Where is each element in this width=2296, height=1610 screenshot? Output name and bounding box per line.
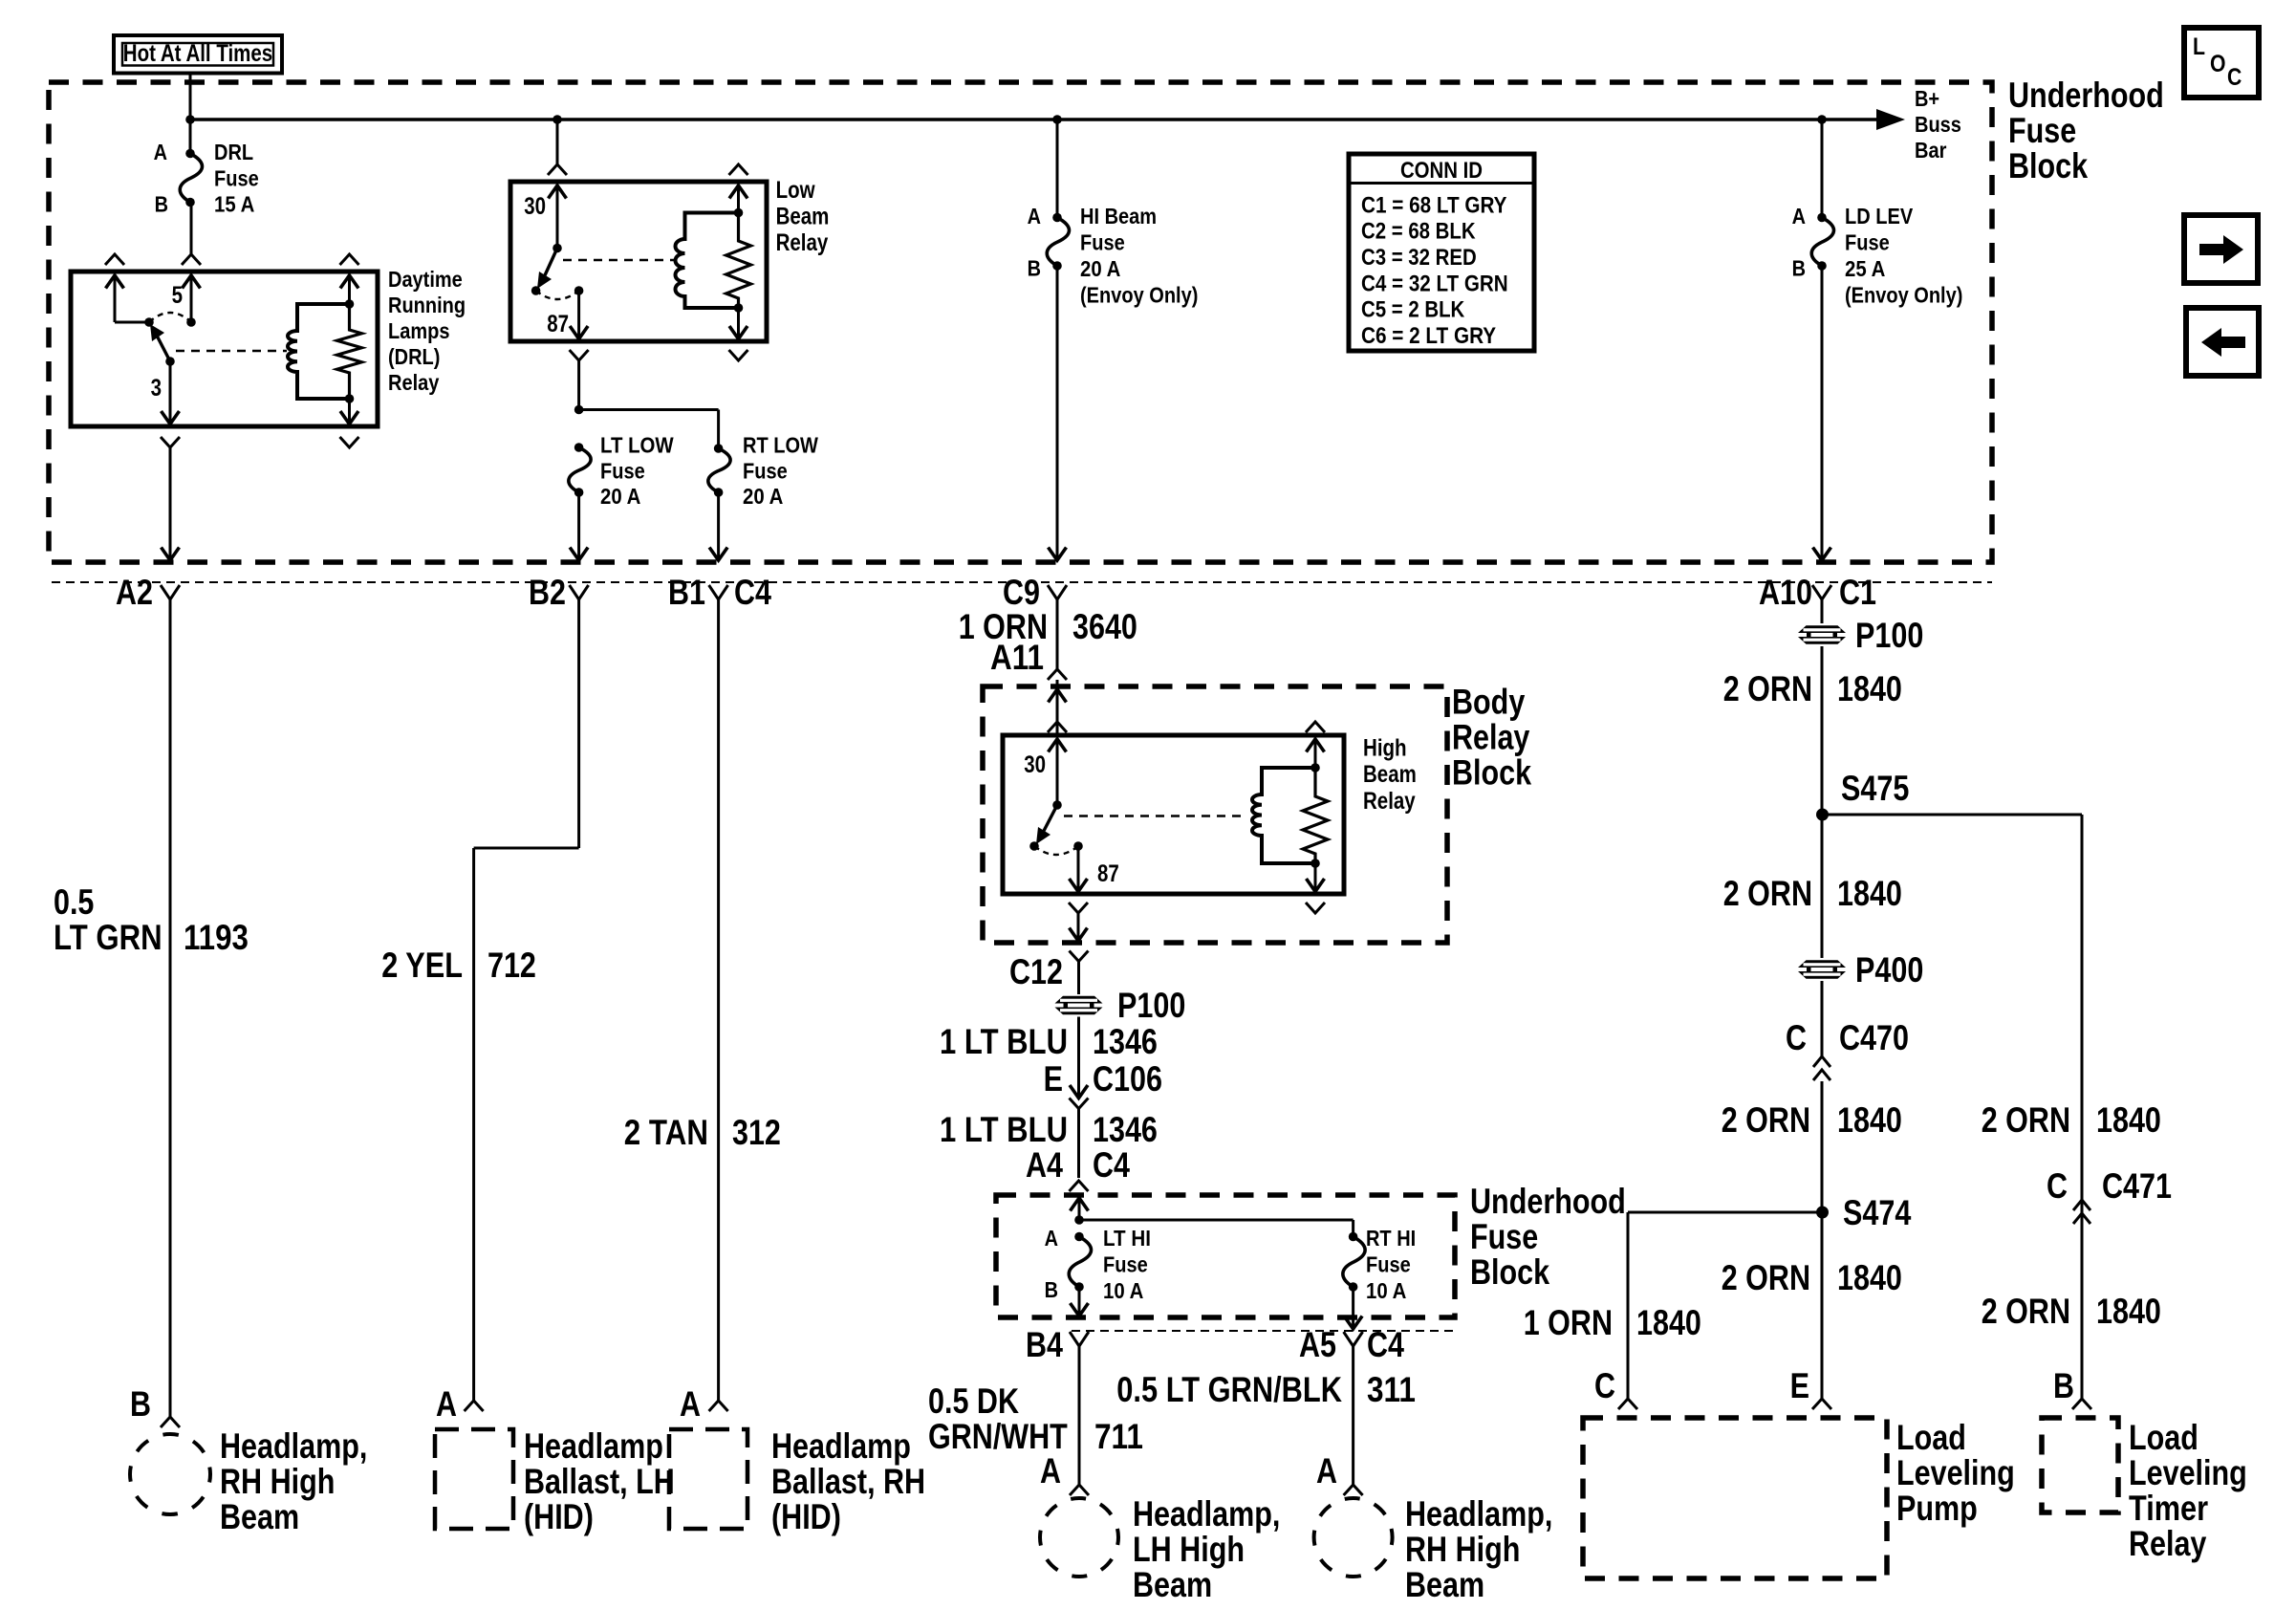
svg-text:1346: 1346 — [1093, 1022, 1158, 1061]
box: Headlamp Ballast LH (HID) (dashed) — [435, 1429, 513, 1529]
fuse DRL Fuse 15 A — [180, 154, 202, 203]
connector P100 (right) — [1798, 625, 1846, 644]
svg-text:B: B — [1028, 256, 1041, 281]
svg-text:Buss: Buss — [1915, 112, 1961, 137]
svg-text:B: B — [130, 1384, 151, 1424]
svg-text:Beam: Beam — [220, 1497, 299, 1536]
wire buss bar to HI Beam fuse — [1056, 120, 1059, 218]
fuse LD LEV Fuse 25 A — [1811, 218, 1833, 267]
High Beam Relay switch blade (arrow down-left) — [1044, 805, 1057, 831]
svg-text:Relay: Relay — [776, 229, 829, 256]
box: Headlamp Ballast RH (HID) (dashed) — [669, 1429, 747, 1529]
connector Y at A10/C1 — [1812, 585, 1831, 599]
lamp: Headlamp RH High Beam mid (dashed circle) — [1314, 1498, 1393, 1577]
wire S475 to P400 — [1821, 815, 1824, 958]
svg-text:Headlamp,: Headlamp, — [1133, 1494, 1280, 1534]
svg-text:20 A: 20 A — [600, 484, 640, 509]
svg-text:A: A — [1045, 1226, 1058, 1251]
box: Load Leveling Pump (dashed) — [1583, 1418, 1887, 1578]
connector C106 chevron — [1070, 1099, 1089, 1109]
svg-text:RT HI: RT HI — [1366, 1226, 1416, 1251]
connector chevron into RH High Beam lamp — [161, 1417, 180, 1427]
svg-text:Fuse: Fuse — [600, 458, 645, 483]
svg-text:C6 = 2 LT GRY: C6 = 2 LT GRY — [1361, 323, 1496, 349]
svg-text:Block: Block — [2008, 146, 2088, 185]
connector chevron into underhood fuse block 2 — [1070, 1181, 1089, 1191]
connector Y at A2 — [161, 585, 180, 599]
chevron below DRL relay pin 3 — [161, 437, 180, 447]
svg-text:Relay: Relay — [388, 370, 440, 395]
svg-text:1840: 1840 — [1837, 669, 1902, 708]
chevron above High Beam Relay pin 30 — [1048, 722, 1067, 732]
svg-text:A10: A10 — [1759, 573, 1812, 612]
svg-text:A5: A5 — [1299, 1325, 1336, 1364]
svg-text:Fuse: Fuse — [1470, 1217, 1538, 1256]
svg-text:Load: Load — [2129, 1418, 2199, 1457]
DRL relay actuation dashed link — [176, 350, 287, 352]
node: buss bar junction at DRL feed — [185, 115, 195, 124]
svg-text:3640: 3640 — [1072, 607, 1137, 646]
wire C106 to A4 — [1077, 1109, 1080, 1179]
DRL relay blade pivot dot (pin 3) — [165, 357, 175, 366]
High Beam Relay switch pivot dot — [1052, 800, 1062, 810]
DRL relay left pin (arrow up, wire to switch) — [106, 275, 124, 289]
svg-text:87: 87 — [1097, 860, 1119, 887]
chevron above High Beam Relay coil — [1306, 722, 1325, 732]
chevron below DRL relay coil — [340, 437, 359, 447]
wire from Hot At All Times into fuse block — [189, 73, 192, 120]
svg-text:0.5 LT GRN/BLK: 0.5 LT GRN/BLK — [1116, 1370, 1342, 1409]
svg-text:(HID): (HID) — [771, 1497, 841, 1536]
entry arrow into lower fuse block — [1071, 1198, 1089, 1211]
svg-text:RH High: RH High — [1405, 1530, 1520, 1569]
svg-text:S474: S474 — [1843, 1193, 1912, 1232]
svg-text:Daytime: Daytime — [388, 267, 463, 292]
svg-text:0.5: 0.5 — [54, 882, 94, 922]
svg-text:B+: B+ — [1915, 86, 1939, 111]
svg-text:P100: P100 — [1855, 616, 1923, 655]
svg-text:C4: C4 — [734, 573, 771, 612]
wire A2 down to RH High Beam lamp — [169, 599, 172, 1417]
svg-text:20 A: 20 A — [1080, 256, 1120, 281]
svg-text:C: C — [1594, 1366, 1615, 1405]
svg-text:2 ORN: 2 ORN — [1723, 874, 1812, 913]
node junction LT/RT HI fuses — [1074, 1215, 1084, 1225]
connector chevron into pump C — [1618, 1399, 1637, 1409]
svg-text:20 A: 20 A — [743, 484, 783, 509]
svg-text:LH High: LH High — [1133, 1530, 1245, 1569]
svg-text:Leveling: Leveling — [2129, 1453, 2247, 1492]
svg-text:Leveling: Leveling — [1896, 1453, 2015, 1492]
wire buss bar to DRL fuse — [189, 120, 192, 153]
svg-text:A4: A4 — [1026, 1145, 1063, 1185]
chevron below High Beam Relay pin 87 — [1069, 903, 1088, 913]
svg-text:Block: Block — [1470, 1252, 1549, 1292]
wire LT HI fuse to B4 — [1078, 1287, 1081, 1314]
frame: Underhood Fuse Block outer dashed box — [49, 82, 1992, 562]
svg-text:2 ORN: 2 ORN — [1982, 1292, 2070, 1331]
svg-text:C1: C1 — [1839, 573, 1876, 612]
svg-text:Headlamp: Headlamp — [771, 1426, 911, 1466]
svg-text:Beam: Beam — [1405, 1565, 1484, 1604]
lamp: Headlamp RH High Beam (dashed circle) — [130, 1434, 210, 1514]
fuse HI Beam Fuse 20 A — [1047, 218, 1069, 267]
connector Y at B1/C4 — [709, 585, 728, 599]
DRL relay pin 5 (arrow up, wire to contact) — [183, 275, 201, 289]
wire B4 to LH high beam lamp — [1078, 1346, 1081, 1485]
svg-text:0.5 DK: 0.5 DK — [928, 1382, 1019, 1421]
DRL relay switch common dot — [144, 317, 154, 327]
Low Beam Relay switch pivot dot — [552, 244, 562, 253]
svg-text:1 LT BLU: 1 LT BLU — [940, 1110, 1068, 1149]
connector Y at C9 — [1048, 585, 1067, 599]
svg-text:2 TAN: 2 TAN — [624, 1113, 708, 1152]
icon arrow left box — [2186, 308, 2259, 376]
wire A5 to RH high beam lamp — [1352, 1346, 1354, 1485]
connector chevron into RH ballast — [709, 1401, 728, 1411]
chevron below Low Beam Relay pin 87 — [570, 350, 589, 360]
svg-text:C4: C4 — [1093, 1145, 1130, 1185]
Low Beam Relay switch dashed arc — [536, 291, 579, 299]
wire DRL fuse B to DRL relay — [190, 203, 193, 255]
connector chevron into DRL relay coil pin — [340, 254, 359, 265]
Low Beam Relay contact 87 dot — [574, 286, 584, 295]
fuse LT HI Fuse 10 A — [1069, 1237, 1091, 1288]
svg-text:C12: C12 — [1009, 952, 1063, 991]
arrowhead buss bar — [1876, 109, 1905, 130]
svg-text:A: A — [154, 140, 167, 164]
wire S474 to pump E — [1821, 1212, 1824, 1399]
wire A10 to P100 — [1821, 599, 1824, 623]
svg-text:B4: B4 — [1026, 1325, 1063, 1364]
svg-text:A: A — [680, 1384, 701, 1424]
relay box: Daytime Running Lamps (DRL) Relay — [71, 272, 378, 426]
svg-text:Fuse: Fuse — [743, 458, 788, 483]
wire S474 branch left to pump C — [1628, 1211, 1823, 1214]
connector chevron into timer relay B — [2072, 1399, 2091, 1409]
wire LD LEV fuse to A10 exit — [1821, 266, 1824, 557]
Low Beam Relay contact dot (NO) — [531, 286, 541, 295]
svg-text:1840: 1840 — [1837, 1100, 1902, 1140]
svg-text:Relay: Relay — [1452, 718, 1530, 757]
svg-text:A: A — [1040, 1451, 1061, 1490]
svg-text:Headlamp,: Headlamp, — [1405, 1494, 1552, 1534]
connector chevron into LH high beam lamp — [1070, 1485, 1089, 1495]
Low Beam Relay pin 30 (arrow up + wire) — [549, 185, 567, 199]
svg-text:C: C — [1786, 1018, 1807, 1057]
svg-text:1 ORN: 1 ORN — [1524, 1303, 1613, 1342]
svg-text:30: 30 — [524, 193, 546, 220]
wire LT LOW fuse to B2 exit — [577, 492, 580, 557]
box: Underhood Fuse Block lower (dashed) — [996, 1195, 1455, 1317]
chevron below Low Beam Relay coil — [729, 350, 748, 360]
connector chevron into RH high beam lamp — [1344, 1485, 1363, 1495]
svg-text:Running: Running — [388, 293, 466, 317]
svg-text:Fuse: Fuse — [214, 165, 259, 190]
svg-text:C9: C9 — [1003, 573, 1040, 612]
icon LOC box — [2184, 28, 2259, 98]
lamp: Headlamp LH High Beam (dashed circle) — [1040, 1498, 1118, 1577]
svg-text:LT GRN: LT GRN — [54, 918, 162, 957]
svg-text:O: O — [2210, 51, 2226, 77]
svg-text:2 ORN: 2 ORN — [1722, 1258, 1810, 1297]
svg-text:RT LOW: RT LOW — [743, 433, 818, 458]
svg-text:Relay: Relay — [2129, 1524, 2207, 1563]
svg-text:1840: 1840 — [2096, 1100, 2161, 1140]
svg-text:Pump: Pump — [1896, 1489, 1978, 1528]
svg-text:B: B — [1045, 1277, 1058, 1302]
Low Beam Relay coil + resistor — [729, 185, 747, 199]
wire HI Beam fuse to C9 exit — [1056, 266, 1059, 557]
svg-text:Beam: Beam — [776, 204, 830, 230]
svg-text:C3 = 32 RED: C3 = 32 RED — [1361, 245, 1477, 271]
svg-text:GRN/WHT: GRN/WHT — [928, 1417, 1068, 1456]
svg-text:311: 311 — [1367, 1370, 1416, 1409]
svg-text:Fuse: Fuse — [1103, 1252, 1148, 1277]
svg-text:P400: P400 — [1855, 950, 1923, 990]
svg-text:B: B — [1792, 256, 1806, 281]
svg-text:B2: B2 — [529, 573, 566, 612]
svg-text:Load: Load — [1896, 1418, 1966, 1457]
High Beam Relay switch dashed arc — [1034, 846, 1078, 855]
Low Beam Relay actuation dashed link — [563, 259, 675, 261]
High Beam Relay coil + resistor — [1307, 739, 1325, 752]
svg-text:Fuse: Fuse — [1080, 230, 1125, 255]
svg-text:A: A — [436, 1384, 457, 1424]
connector chevron into Low Beam Relay pin 30 — [548, 164, 567, 175]
svg-text:C: C — [2227, 64, 2242, 91]
svg-text:Low: Low — [776, 177, 815, 204]
svg-text:Headlamp: Headlamp — [524, 1426, 663, 1466]
High Beam Relay pin 30 (arrow up + wire) — [1049, 739, 1067, 752]
connector chevron into DRL relay pin 5 — [182, 254, 201, 265]
svg-text:S475: S475 — [1841, 769, 1909, 808]
svg-text:A11: A11 — [990, 638, 1044, 677]
wire P100 to C106 — [1077, 1017, 1080, 1097]
svg-text:1193: 1193 — [184, 918, 249, 957]
svg-text:312: 312 — [732, 1113, 781, 1152]
connector Y at A5/C4 — [1344, 1332, 1363, 1346]
chevron below Body Relay Block — [1070, 951, 1089, 962]
wire P100 to S475 — [1821, 646, 1824, 815]
svg-text:C5 = 2 BLK: C5 = 2 BLK — [1361, 297, 1465, 323]
svg-text:(Envoy Only): (Envoy Only) — [1080, 283, 1198, 308]
svg-text:1840: 1840 — [1837, 1258, 1902, 1297]
Low Beam Relay pin 87 wire + arrow — [577, 291, 580, 337]
svg-text:1 LT BLU: 1 LT BLU — [940, 1022, 1068, 1061]
wire P400 to C470 — [1821, 981, 1824, 1056]
wire C470 to S474 — [1821, 1081, 1824, 1212]
svg-text:Bar: Bar — [1915, 138, 1946, 163]
svg-text:LD LEV: LD LEV — [1845, 204, 1914, 228]
svg-text:712: 712 — [487, 946, 536, 985]
svg-text:Beam: Beam — [1133, 1565, 1212, 1604]
svg-text:Lamps: Lamps — [388, 318, 450, 343]
DRL relay coil + resistor — [340, 275, 358, 289]
connector P100 (center) — [1055, 996, 1103, 1015]
svg-text:DRL: DRL — [214, 140, 253, 164]
svg-text:10 A: 10 A — [1103, 1278, 1143, 1303]
fuse LT LOW Fuse 20 A — [569, 447, 591, 492]
svg-text:LT LOW: LT LOW — [600, 433, 674, 458]
svg-text:1346: 1346 — [1093, 1110, 1158, 1149]
node: buss bar junction at Low Beam Relay feed — [552, 115, 562, 124]
svg-text:Fuse: Fuse — [1366, 1252, 1411, 1277]
svg-text:B: B — [155, 192, 168, 217]
svg-text:1840: 1840 — [1636, 1303, 1701, 1342]
svg-text:2 ORN: 2 ORN — [1982, 1100, 2070, 1140]
svg-text:Underhood: Underhood — [2008, 76, 2164, 115]
svg-text:1840: 1840 — [1837, 874, 1902, 913]
svg-text:P100: P100 — [1117, 986, 1185, 1025]
svg-text:HI Beam: HI Beam — [1080, 204, 1157, 228]
relay box: Low Beam Relay — [510, 182, 767, 341]
svg-text:Ballast, RH: Ballast, RH — [771, 1462, 925, 1501]
svg-text:C2 = 68 BLK: C2 = 68 BLK — [1361, 219, 1476, 245]
svg-text:C: C — [2047, 1166, 2068, 1206]
svg-text:2 ORN: 2 ORN — [1723, 669, 1812, 708]
svg-text:Beam: Beam — [1363, 761, 1417, 788]
svg-text:Hot At All Times: Hot At All Times — [123, 40, 272, 67]
svg-text:C470: C470 — [1839, 1018, 1909, 1057]
svg-text:LT HI: LT HI — [1103, 1226, 1151, 1251]
svg-text:Timer: Timer — [2129, 1489, 2208, 1528]
wire B+ buss bar — [190, 118, 1879, 121]
connector chevron into Low Beam Relay coil pin — [729, 164, 748, 175]
svg-text:A: A — [1028, 204, 1041, 228]
svg-text:87: 87 — [547, 311, 569, 337]
svg-text:2 YEL: 2 YEL — [381, 946, 463, 985]
svg-text:C471: C471 — [2102, 1166, 2172, 1206]
connector chevron into DRL relay left pin — [105, 254, 124, 265]
svg-text:Block: Block — [1452, 753, 1531, 793]
DRL relay switch blade (arrow toward common) — [156, 334, 170, 361]
wire S475 branch right — [1823, 814, 2083, 816]
chevron below High Beam Relay coil — [1306, 903, 1325, 913]
svg-text:(HID): (HID) — [524, 1497, 594, 1536]
svg-text:A: A — [1792, 204, 1806, 228]
svg-text:Headlamp,: Headlamp, — [220, 1426, 367, 1466]
High Beam Relay pin 87 wire + arrow — [1077, 846, 1080, 889]
fuse RT LOW Fuse 20 A — [708, 448, 730, 492]
High Beam Relay contact 87 dot — [1073, 841, 1083, 851]
box: Body Relay Block (dashed) — [983, 686, 1447, 943]
svg-text:25 A: 25 A — [1845, 256, 1885, 281]
node: buss bar junction at LD LEV fuse feed — [1817, 115, 1827, 124]
svg-text:A2: A2 — [116, 573, 153, 612]
svg-text:C4 = 32 LT GRN: C4 = 32 LT GRN — [1361, 271, 1508, 296]
svg-text:C106: C106 — [1093, 1059, 1162, 1099]
table CONN ID box — [1349, 154, 1534, 351]
svg-text:711: 711 — [1094, 1417, 1143, 1456]
icon arrow right box — [2184, 215, 2258, 283]
wire 87 down to fuse junction — [577, 360, 580, 410]
svg-text:Fuse: Fuse — [2008, 111, 2076, 150]
wire junction to RT HI fuse — [1079, 1219, 1354, 1222]
wire B1 down to RH ballast — [717, 599, 720, 1401]
label Hot At All Times (double box) — [114, 35, 282, 74]
wire RT HI fuse to A5 — [1352, 1287, 1354, 1327]
svg-text:3: 3 — [151, 375, 162, 402]
svg-text:A: A — [1316, 1451, 1337, 1490]
High Beam Relay actuation dashed link — [1064, 815, 1243, 816]
svg-text:High: High — [1363, 735, 1407, 762]
svg-text:(Envoy Only): (Envoy Only) — [1845, 283, 1962, 308]
connector C470 double chevron — [1813, 1056, 1830, 1067]
node S475 splice — [1816, 809, 1829, 821]
svg-text:10 A: 10 A — [1366, 1278, 1406, 1303]
svg-text:CONN ID: CONN ID — [1400, 158, 1483, 184]
connector chevron into LH ballast — [465, 1401, 484, 1411]
svg-text:Underhood: Underhood — [1470, 1182, 1626, 1221]
wire B2 down with jog to LH ballast — [577, 599, 580, 848]
wire C9 to Body Relay Block — [1056, 599, 1059, 669]
wire buss bar to LD LEV fuse — [1821, 120, 1824, 218]
svg-text:C1 = 68 LT GRY: C1 = 68 LT GRY — [1361, 192, 1507, 218]
wire DRL pin3 to A2 exit — [169, 447, 172, 557]
svg-text:L: L — [2193, 33, 2205, 60]
svg-text:B: B — [2053, 1366, 2074, 1405]
wire 87 to Body Relay Block exit — [1077, 913, 1080, 938]
svg-text:Body: Body — [1452, 683, 1526, 722]
node: buss bar junction at HI Beam fuse feed — [1052, 115, 1062, 124]
High Beam Relay contact dot (NO) — [1029, 841, 1039, 851]
svg-text:Ballast, LH: Ballast, LH — [524, 1462, 675, 1501]
Low Beam Relay switch blade (arrow down-left) — [545, 249, 557, 276]
connector chevron into pump E — [1812, 1399, 1831, 1409]
entry arrow into Body Relay Block — [1049, 689, 1067, 703]
DRL relay pin 3 wire + arrow down — [169, 361, 172, 422]
connector P400 — [1798, 960, 1846, 979]
svg-text:RH High: RH High — [220, 1462, 335, 1501]
svg-text:Fuse: Fuse — [1845, 230, 1890, 255]
DRL relay switch dashed arc — [149, 313, 191, 322]
wire RT LOW fuse to B1 exit — [717, 492, 720, 557]
DRL relay contact 5 dot — [186, 317, 196, 327]
wire to P100 (center) — [1077, 962, 1080, 995]
node junction to RT LOW fuse — [574, 405, 584, 415]
connector Y at B2 — [570, 585, 589, 599]
connector Y at B4 — [1070, 1332, 1089, 1346]
svg-text:E: E — [1790, 1366, 1809, 1405]
svg-text:E: E — [1044, 1059, 1063, 1099]
svg-text:5: 5 — [172, 282, 183, 309]
svg-text:(DRL): (DRL) — [388, 344, 440, 369]
svg-text:30: 30 — [1024, 751, 1046, 778]
connector face line under lower fuse block — [1072, 1330, 1455, 1332]
wire junction to RT LOW fuse — [579, 408, 719, 411]
svg-text:B1: B1 — [668, 573, 705, 612]
svg-text:1840: 1840 — [2096, 1292, 2161, 1331]
connector C471 double chevron — [2073, 1200, 2090, 1210]
node S474 splice — [1816, 1207, 1829, 1219]
relay box: High Beam Relay — [1003, 735, 1344, 894]
svg-text:2 ORN: 2 ORN — [1722, 1100, 1810, 1140]
wire buss bar to Low Beam Relay — [556, 120, 559, 164]
svg-text:15 A: 15 A — [214, 192, 254, 217]
svg-text:C4: C4 — [1367, 1325, 1404, 1364]
svg-text:Relay: Relay — [1363, 788, 1416, 815]
connector face line under fuse block (C1/C2 boundary) — [52, 581, 1992, 583]
box: Load Leveling Timer Relay (dashed) — [2042, 1418, 2118, 1512]
fuse RT HI Fuse 10 A — [1343, 1237, 1365, 1288]
